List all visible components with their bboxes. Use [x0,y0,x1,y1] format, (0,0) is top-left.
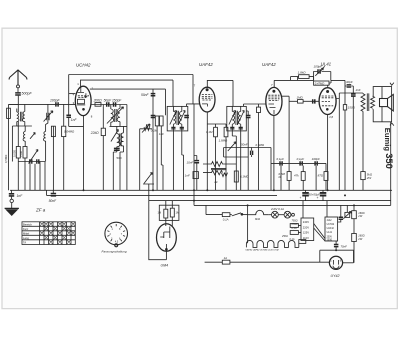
svg-text:500: 500 [117,156,122,160]
capacitor 20uF [338,205,344,222]
svg-text:50nF: 50nF [49,199,58,203]
wire x=40 [39,162,41,191]
osc coil lower B [120,126,123,152]
resistor 200 [95,103,101,107]
wire AGC vertical x=68.7 [69,75,84,127]
label 100pF top [314,65,323,69]
label UAF42 [199,62,213,67]
svg-text:1nF: 1nF [17,194,24,198]
svg-text:+: + [317,196,319,200]
wire top cap no2 [274,80,313,87]
wire UM4 loop [149,201,167,260]
IF transformer 3 box [227,106,247,130]
wire vertical x=194 AGC2 [193,104,195,205]
svg-text:Mittel: Mittel [23,231,30,235]
svg-text:TA: TA [23,240,26,244]
UL41 top stem [327,85,329,88]
ground symbol [5,203,19,216]
capacitor 2nF [37,159,39,163]
svg-text:Bereich: Bereich [23,222,32,226]
wire osc bottoms [113,152,123,190]
labels heater right [291,220,298,230]
IFT3 core [236,111,238,125]
RF coil 2 [23,132,25,147]
IFT2 core [177,111,179,125]
wire UCH42 grid tick [69,93,76,95]
label UM4 [161,264,169,268]
antenna coil primary [17,109,19,127]
svg-text:0,1A: 0,1A [223,217,229,221]
svg-text:1MΩ: 1MΩ [297,95,304,99]
svg-text:22kΩ: 22kΩ [90,131,99,135]
label 2nF [355,88,361,92]
IFT3 trim caps [230,127,243,128]
wire under tube row [207,123,226,125]
label 1nF box [185,174,190,178]
speaker cone [388,94,394,111]
svg-text:Fassungschaltung: Fassungschaltung [102,250,127,254]
svg-text:750Ω: 750Ω [292,220,298,223]
wire line A top [69,75,193,104]
wire IFT2 to grid [187,104,200,107]
switch lever [232,213,248,216]
trimmer cap tuning [47,113,49,120]
AF resistor zigzag [203,162,236,167]
label 500pF [22,92,33,96]
svg-text:1,8kΩ: 1,8kΩ [298,71,307,75]
resistor left box1 [16,147,20,191]
resistor boxes IF pair [155,116,163,190]
svg-text:0,47MΩ: 0,47MΩ [315,81,325,85]
IFT3 coil a [232,106,234,130]
wire x=30 [29,164,31,191]
lamp 2 [278,211,291,218]
tube UCH42 [75,86,91,115]
resistor 1,8k top [291,75,314,81]
svg-text:UY42: UY42 [331,274,340,278]
resistor 0,1M under tube [214,124,218,190]
resistor 87 [324,163,328,190]
wire x=281 stub [280,166,282,191]
capacitor 1nF on x=68.7 [66,115,71,117]
svg-text:160Ω: 160Ω [358,234,364,238]
label Fassungschaltung [102,250,127,254]
rectifier top wire [320,250,354,263]
capacitor 100pF [56,102,58,106]
IFT2 arrows [170,111,185,125]
electrolytic 50+50uF b [320,190,327,200]
label 30pF [346,80,353,84]
resistor 0,5M anode [287,172,291,181]
table frequencies [22,222,75,245]
label ZF [35,207,46,212]
svg-text:110V: 110V [303,236,309,240]
svg-text:70nF: 70nF [341,244,348,248]
UY42 pins [343,262,354,264]
wire cathode no2 [273,115,275,190]
lamp 1 [268,211,278,218]
svg-text:160Ω: 160Ω [358,211,364,215]
resistor 4,7k [301,166,305,191]
svg-text:200Ω: 200Ω [93,99,103,103]
svg-text:2nF: 2nF [355,88,361,92]
antenna [9,70,27,85]
label UL41 [321,61,332,66]
wire UL41 anode [336,99,339,191]
tube UL41 [319,88,336,115]
svg-text:47k: 47k [294,174,299,178]
wire anode no2 [282,96,289,190]
label 150 [348,106,356,110]
transformer box2 texts [327,220,335,242]
RF coil 3 [43,127,45,162]
svg-text:100pF: 100pF [312,157,320,161]
label UAF42 no2 [262,62,276,67]
resistor 160 a [352,205,357,233]
speaker feed vertical [381,87,383,122]
terminal chevron top [390,83,394,86]
label 22k [90,131,99,135]
label 50nF [141,93,150,97]
svg-text:0,1A: 0,1A [290,238,295,241]
wire UL41 cathode down [327,115,329,191]
svg-text:0,005: 0,005 [12,150,16,157]
label UY42 [331,274,340,278]
label UCH42 [76,63,91,68]
resistor 5k 2W [361,172,365,180]
wire line B [81,80,174,106]
label 10nF [187,161,194,165]
svg-text:1nF: 1nF [71,118,78,122]
tone capacitor [251,151,253,155]
svg-text:0,1MΩ: 0,1MΩ [240,175,249,179]
IFT3 arrows [229,111,244,125]
label 0,005 rotated [12,150,16,157]
svg-text:Eumig: Eumig [383,128,392,152]
labels under IF boxes [151,129,164,136]
svg-text:50pF 150pF: 50pF 150pF [104,98,123,102]
label 100pF [50,98,61,102]
capacitor 100pF top [318,69,320,73]
svg-text:250V: 250V [327,237,333,239]
tone cluster wires [224,148,271,191]
svg-text:ZF a: ZF a [35,207,46,212]
label 50nF bus [49,199,58,203]
labels tone [241,142,265,146]
UM4 internals [160,227,170,251]
svg-text:1,8MΩ: 1,8MΩ [219,139,228,143]
UL41 pin digits [329,82,334,119]
AGC arrow [142,124,150,133]
wire UCH42 cathode [83,116,85,191]
socket pins [107,224,125,241]
svg-text:0,1μF: 0,1μF [297,157,305,161]
mains selector feed a [302,201,304,218]
capacitor 0,1uF a [280,161,282,165]
heater dropper coil 6k [248,210,269,214]
label 500 [117,156,122,160]
svg-text:UCH42: UCH42 [76,63,91,68]
capacitor padder [114,148,120,150]
labels 0,1M 1,8M [206,130,228,143]
svg-text:UAF42: UAF42 [262,62,276,67]
IF transformer 2 box [167,106,188,130]
capacitor 10nF [194,156,199,191]
label 50pF 150pF [104,98,123,102]
UAF42 pin digit 7 [194,84,196,88]
mains selector box1 [301,218,314,241]
logo 350 [384,153,395,169]
label 160 a [357,211,364,218]
wire B2 anode box [207,80,233,106]
terminal chevron bottom [390,123,394,126]
capacitor 30pF [347,85,352,87]
switch feed [206,205,222,214]
antenna plug circle [17,85,20,92]
trimmer arrow top [315,68,323,76]
wire row y=161.5 [18,161,45,163]
svg-text:100pF: 100pF [50,98,61,102]
svg-text:UAF42: UAF42 [327,227,335,230]
svg-text:240V: 240V [303,220,309,224]
label 750k rotated [19,150,23,157]
label 200 [93,99,103,103]
svg-text:0,1M: 0,1M [206,130,213,134]
capacitor 50nF bus [52,190,54,193]
svg-text:350: 350 [384,153,395,169]
osc core lower [120,133,121,146]
UM4 frame box [159,205,179,220]
capacitor box AF [193,172,198,179]
wire osc mid y=126.4 [110,125,127,127]
label 0,04M [64,130,75,134]
osc arrow upper [107,107,124,124]
IFT2 legs [173,131,183,190]
wire right edge vertical [390,122,392,206]
heater link box [299,240,306,244]
UM4 feed resistor b [170,201,174,226]
capacitor 2nF B+ [352,86,354,94]
svg-text:150Ω: 150Ω [348,106,356,110]
svg-text:0,04MΩ: 0,04MΩ [64,130,75,134]
mains wire with fuse [205,260,330,264]
svg-text:50nF: 50nF [241,142,248,146]
speaker box [380,99,388,107]
svg-text:10nF: 10nF [187,161,194,165]
tube UM4 [157,224,177,252]
coupling cap UL41 grid [289,100,319,102]
svg-text:250Ω: 250Ω [281,235,288,238]
osc arrow lower [111,130,119,142]
UAF42 no2 internals [268,90,279,114]
labels UM4 resistors [158,211,180,215]
wire trimmer legs [46,104,48,126]
label lamps [270,207,284,211]
wire anode supply row y=163.4 [271,162,326,164]
selector diagonals [314,224,325,242]
svg-text:750k: 750k [19,150,23,157]
resistor 1,8M under tube [224,124,228,190]
wire bus L3 [149,200,391,202]
svg-text:1A: 1A [224,256,228,260]
UCH42 pin digits [73,82,94,118]
svg-text:1nF: 1nF [185,174,190,178]
potentiometer arrow left [29,150,39,164]
antenna coil secondary [23,104,25,126]
heater chain right labels [281,235,295,241]
wire x=35 [34,164,36,191]
svg-text:2W: 2W [366,176,372,180]
electrolytic 50+50uF a [302,190,309,200]
label 70nF [341,244,348,248]
cathode resistor 150 [343,93,346,190]
labels caps row [277,157,321,161]
osc coil upper B [117,105,120,127]
svg-text:4x42: 4x42 [327,220,333,222]
UM4 feed resistor a [164,201,168,226]
UCH42 internals [77,86,89,110]
IFT2 coil a [173,106,175,130]
IFT2 trim caps [171,127,184,128]
label 3,9M rotated [4,155,8,163]
wire line C anode UCH42 [90,89,166,115]
svg-text:0,1M: 0,1M [151,129,158,133]
resistor osc grid box [101,105,105,191]
capacitor 500pF [15,93,21,95]
label mains fuse [224,256,228,260]
heater chain vertical [247,205,249,243]
IFT3 coil b [238,106,240,130]
capacitor 50pF [107,102,109,106]
svg-text:500pF: 500pF [22,92,33,96]
wire bus L2 [47,190,278,195]
trimmer 100pF loop [314,72,331,81]
pickup jack capacitor 1nF [10,190,12,193]
resistor 0,47M [314,80,345,86]
svg-text:0,1μF: 0,1μF [277,157,285,161]
selector box1 texts [303,220,309,240]
selector side box b [290,231,301,235]
choke Dr core [211,168,227,169]
NTC resistor [343,205,351,218]
trimmer arrow [44,111,53,122]
resistor 1M grid [298,100,304,104]
socket pin digits [110,228,123,244]
osc coil lower A [117,126,120,152]
resistor second box [51,126,55,190]
resistor 0,1M AF [234,171,238,182]
heater chain labels [246,249,280,252]
choke Dr coil [203,170,228,176]
svg-text:30pF: 30pF [346,80,353,84]
wire anode to transformer [339,93,363,99]
transformer box2 [325,217,338,241]
IFT3 legs [232,131,240,190]
svg-text:125V: 125V [303,231,309,235]
resistor 0,5M left edge [7,104,18,190]
label 0,47M [315,81,325,85]
svg-text:0,5MΩ: 0,5MΩ [4,155,8,163]
capacitor on x=153 lower [151,116,156,118]
UL41 internals [322,90,334,110]
resistor left box2 [23,147,27,191]
UAF42 no1 internals [202,89,213,107]
svg-text:0,5MΩ: 0,5MΩ [256,143,265,147]
svg-text:UM4: UM4 [161,264,169,268]
svg-text:250Ω: 250Ω [327,240,333,242]
RF pot arrow [30,133,35,139]
capacitor right of IFT3 [246,111,251,190]
osc core upper [115,109,117,122]
svg-text:Lang: Lang [23,236,29,240]
capacitor 150pF [114,102,116,106]
svg-text:UAF42: UAF42 [199,62,213,67]
UY42 internals [333,260,339,268]
tube UY42 [329,256,342,269]
wire x=45 [44,162,46,191]
lamp terminal [291,213,295,216]
label 1nF jack [17,194,24,198]
wire IFT3 to grid2 [244,104,266,106]
svg-text:1nF: 1nF [159,132,164,136]
svg-text:2x6V 0,1A: 2x6V 0,1A [270,207,284,211]
label 1,8k [298,71,307,75]
svg-text:87Ω: 87Ω [318,174,324,178]
volume pot [143,173,154,201]
tube UAF42 no2 [266,87,282,115]
svg-text:2W: 2W [357,214,362,218]
label 1nF [71,118,78,122]
table X marks [40,222,75,244]
wire osc row y=104.5 [91,105,127,191]
transformer secondary [371,96,375,109]
output transformer primary [361,93,365,190]
logo Eumig 350 [383,128,392,152]
wire grid row y=104.4 [9,103,76,105]
svg-text:50nF: 50nF [141,93,150,97]
socket circle [105,222,128,247]
svg-text:220V: 220V [303,225,309,229]
svg-text:+: + [300,196,302,200]
resistor 0,04M [62,104,66,190]
label 160 b [357,234,364,241]
label 4,7k [294,174,299,178]
tube UAF42 no1 [199,87,215,112]
svg-text:UAF42 UAF42 UCH42 UL41 UY42: UAF42 UAF42 UCH42 UL41 UY42 [246,249,280,252]
pin digit 7 no2 [271,83,273,87]
svg-text:UL41: UL41 [327,232,333,234]
wire bus L4 [194,204,391,206]
capacitor 100pF c [315,161,317,165]
selector side box a [290,224,301,228]
diode load resistor [257,104,261,190]
label Dr [215,180,219,184]
capacitor 0,1uF b [300,161,302,165]
coil core [21,112,22,122]
label 1M [297,95,304,99]
label 6k [255,217,261,221]
transformer box2 feed [326,201,328,217]
UL41 label pointer [321,66,324,70]
AGC resistor cluster [140,124,152,190]
label 50+50 [300,193,321,201]
capacitor 50nF det [152,89,154,190]
wire coil junction row [12,126,32,162]
label 87 [318,174,324,178]
wire left column x=18 [17,96,19,147]
wire bus L1 [10,189,392,191]
svg-text:Dr.: Dr. [215,180,219,184]
